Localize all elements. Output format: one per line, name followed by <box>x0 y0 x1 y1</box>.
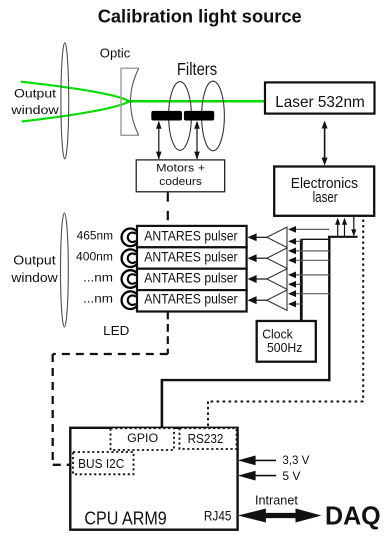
svg-text:ANTARES pulser: ANTARES pulser <box>144 292 238 307</box>
svg-text:...nm: ...nm <box>83 292 113 306</box>
svg-text:ANTARES pulser: ANTARES pulser <box>144 250 238 265</box>
svg-text:Filters: Filters <box>177 59 218 79</box>
svg-text:ANTARES pulser: ANTARES pulser <box>144 270 238 285</box>
svg-text:Clock: Clock <box>262 328 293 342</box>
svg-text:5 V: 5 V <box>282 469 301 483</box>
svg-text:Output: Output <box>13 253 56 268</box>
svg-text:Motors +: Motors + <box>156 163 205 175</box>
svg-text:window: window <box>10 270 58 285</box>
svg-text:Intranet: Intranet <box>255 494 298 508</box>
svg-text:laser: laser <box>313 189 338 206</box>
svg-text:BUS I2C: BUS I2C <box>78 456 125 471</box>
svg-text:Laser 532nm: Laser 532nm <box>275 94 365 111</box>
svg-text:465nm: 465nm <box>77 229 114 243</box>
svg-text:codeurs: codeurs <box>159 176 202 188</box>
svg-text:ANTARES pulser: ANTARES pulser <box>144 229 238 244</box>
svg-text:Calibration light source: Calibration light source <box>98 6 302 27</box>
svg-text:3,3 V: 3,3 V <box>282 453 309 467</box>
svg-text:window: window <box>10 103 58 117</box>
svg-text:CPU ARM9: CPU ARM9 <box>84 507 166 528</box>
svg-text:RJ45: RJ45 <box>204 508 232 524</box>
svg-text:500Hz: 500Hz <box>267 341 302 355</box>
svg-text:400nm: 400nm <box>76 250 113 264</box>
svg-text:LED: LED <box>103 323 129 338</box>
svg-text:...nm: ...nm <box>83 270 113 284</box>
svg-text:RS232: RS232 <box>188 431 224 446</box>
svg-text:Optic: Optic <box>100 46 131 61</box>
svg-text:DAQ: DAQ <box>325 501 381 531</box>
svg-text:GPIO: GPIO <box>127 431 158 445</box>
svg-text:Output: Output <box>14 87 57 101</box>
